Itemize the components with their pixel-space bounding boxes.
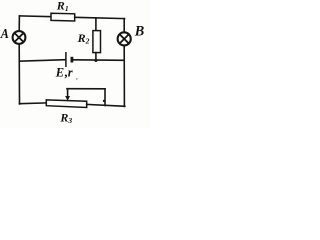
- rheostat wiper arrow: [65, 89, 70, 101]
- battery E,r short thick plate: [71, 57, 74, 63]
- wire bottom-left segment: [20, 102, 47, 105]
- resistor R1: [51, 13, 75, 21]
- period after E,r: [76, 78, 78, 80]
- junction node R2/middle wire: [95, 59, 98, 62]
- svg-text:B: B: [134, 24, 144, 40]
- wire R2 bottom lead: [95, 53, 97, 61]
- wire left vertical above lamp A: [18, 16, 20, 31]
- wire wiper horizontal segment: [67, 88, 105, 90]
- wire top-left segment: [19, 15, 51, 18]
- wire top-right segment: [75, 17, 125, 18]
- resistor R2: [93, 31, 101, 53]
- battery E,r long plate: [65, 53, 67, 66]
- wire wiper right vertical segment: [104, 89, 106, 106]
- svg-text:A: A: [0, 27, 9, 42]
- wire middle-left segment: [19, 60, 65, 62]
- rheostat R3: [46, 100, 86, 108]
- lamp B: [118, 32, 131, 45]
- wire R2 top lead: [95, 18, 97, 31]
- wire middle-right segment: [73, 59, 124, 62]
- wire left vertical below lamp A: [18, 44, 20, 104]
- wire right vertical below lamp B: [123, 46, 125, 106]
- svg-text:E,r: E,r: [55, 65, 73, 79]
- junction node wiper/bottom wire: [103, 100, 105, 102]
- wire right vertical above lamp B: [123, 19, 125, 32]
- wire bottom-right segment: [87, 104, 125, 106]
- lamp A: [13, 31, 26, 44]
